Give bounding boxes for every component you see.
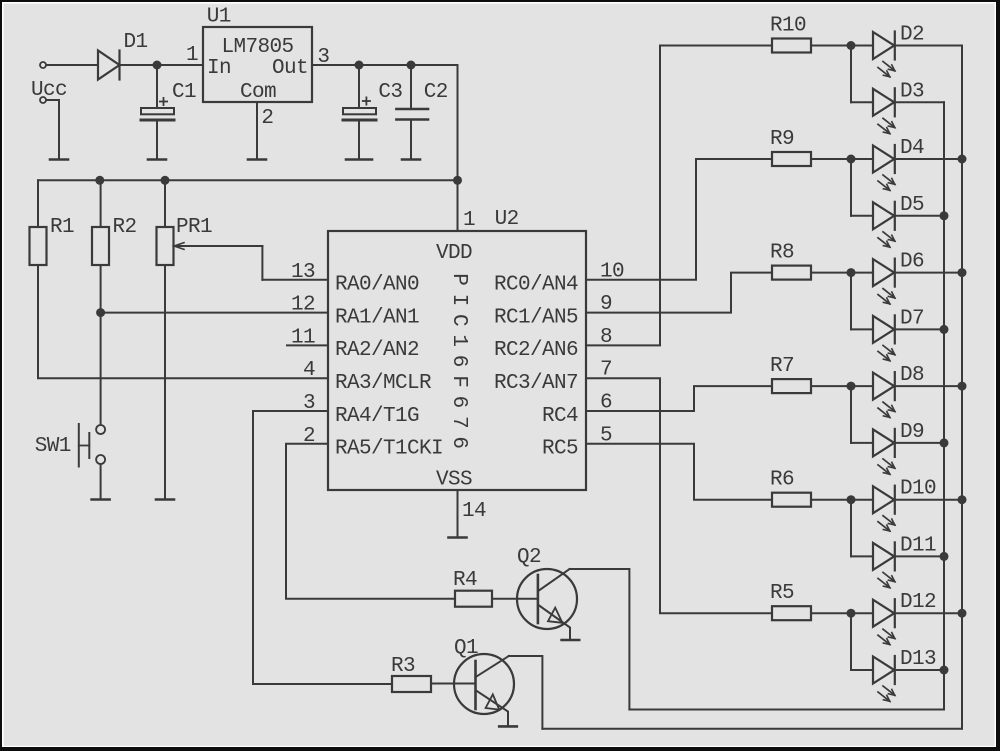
svg-text:R7: R7 xyxy=(770,355,794,378)
svg-text:D9: D9 xyxy=(900,421,924,444)
svg-text:RC2/AN6: RC2/AN6 xyxy=(494,339,578,362)
svg-text:D6: D6 xyxy=(900,251,924,274)
svg-text:R10: R10 xyxy=(770,15,806,38)
svg-text:RC0/AN4: RC0/AN4 xyxy=(494,274,578,297)
svg-text:SW1: SW1 xyxy=(35,435,71,458)
svg-text:2: 2 xyxy=(261,107,273,130)
svg-text:VDD: VDD xyxy=(436,242,472,265)
svg-text:VSS: VSS xyxy=(436,469,472,492)
svg-text:13: 13 xyxy=(291,261,315,284)
svg-text:Q2: Q2 xyxy=(517,546,541,569)
svg-text:RA3/MCLR: RA3/MCLR xyxy=(335,372,432,395)
svg-text:4: 4 xyxy=(303,359,315,382)
svg-text:RC3/AN7: RC3/AN7 xyxy=(494,372,578,395)
svg-text:RA2/AN2: RA2/AN2 xyxy=(335,339,419,362)
svg-text:RA0/AN0: RA0/AN0 xyxy=(335,274,419,297)
svg-text:R1: R1 xyxy=(50,216,74,239)
svg-text:C2: C2 xyxy=(424,81,448,104)
svg-text:D12: D12 xyxy=(900,591,936,614)
svg-text:RA5/T1CKI: RA5/T1CKI xyxy=(335,438,443,461)
svg-text:D5: D5 xyxy=(900,194,924,217)
svg-text:RA4/T1G: RA4/T1G xyxy=(335,405,419,428)
svg-text:D10: D10 xyxy=(900,478,936,501)
svg-text:RC5: RC5 xyxy=(542,438,578,461)
svg-text:D1: D1 xyxy=(124,31,148,54)
svg-text:C1: C1 xyxy=(172,81,196,104)
svg-text:C3: C3 xyxy=(378,81,402,104)
svg-text:R2: R2 xyxy=(113,216,137,239)
svg-text:12: 12 xyxy=(291,294,315,317)
svg-text:Out: Out xyxy=(272,57,308,80)
svg-text:D8: D8 xyxy=(900,364,924,387)
svg-text:PR1: PR1 xyxy=(176,216,212,239)
svg-text:D11: D11 xyxy=(900,534,936,557)
svg-text:In: In xyxy=(207,57,231,80)
svg-text:Q1: Q1 xyxy=(454,637,478,660)
svg-text:D4: D4 xyxy=(900,137,924,160)
svg-text:PIC16F676: PIC16F676 xyxy=(447,273,470,457)
svg-text:U2: U2 xyxy=(495,208,519,231)
svg-text:R3: R3 xyxy=(391,655,415,678)
svg-text:R4: R4 xyxy=(453,569,477,592)
svg-text:R5: R5 xyxy=(770,582,794,605)
svg-text:14: 14 xyxy=(462,500,486,523)
svg-text:R9: R9 xyxy=(770,128,794,151)
svg-text:Ucc: Ucc xyxy=(31,79,67,102)
svg-text:D3: D3 xyxy=(900,80,924,103)
svg-text:LM7805: LM7805 xyxy=(221,36,293,59)
svg-text:RA1/AN1: RA1/AN1 xyxy=(335,306,419,329)
svg-text:D13: D13 xyxy=(900,648,936,671)
svg-text:U1: U1 xyxy=(207,6,231,29)
svg-text:R8: R8 xyxy=(770,242,794,265)
svg-text:RC1/AN5: RC1/AN5 xyxy=(494,306,578,329)
svg-text:1: 1 xyxy=(186,44,198,67)
svg-text:D7: D7 xyxy=(900,307,924,330)
svg-text:R6: R6 xyxy=(770,469,794,492)
svg-text:RC4: RC4 xyxy=(542,405,578,428)
svg-text:Com: Com xyxy=(240,81,276,104)
svg-text:D2: D2 xyxy=(900,24,924,47)
svg-text:1: 1 xyxy=(463,209,475,232)
